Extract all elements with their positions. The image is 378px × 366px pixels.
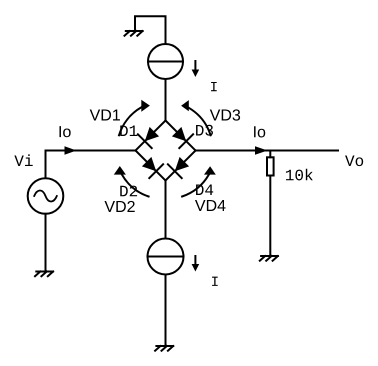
arrow I (top) <box>194 61 196 70</box>
diode D1 (top node to left node) <box>136 121 166 151</box>
resistor R1 10k <box>269 151 271 158</box>
label Vo <box>345 155 363 166</box>
label D2 <box>120 186 137 197</box>
label I (top) <box>211 82 217 91</box>
arrow I (bottom) <box>194 256 196 265</box>
wire I2 to ground <box>165 275 167 347</box>
diode D4 (right node to bottom node) <box>166 151 196 181</box>
ground (right, below R1) <box>260 256 278 261</box>
label VD2 <box>104 201 134 212</box>
wire V1 to ground <box>45 214 47 272</box>
arrowhead Io (left wire) <box>65 146 77 154</box>
label VD4 <box>195 200 226 211</box>
arc arrow VD3 <box>189 108 211 136</box>
ground (left, below V1) <box>35 272 53 277</box>
diode D2 (left node to bottom node) <box>136 151 166 181</box>
label 10k <box>286 169 313 181</box>
ground (top) <box>125 31 143 36</box>
arc arrow VD1 <box>119 107 141 135</box>
label D1 <box>120 125 137 136</box>
wire right output (bridge right node to Vo) <box>196 150 339 152</box>
arc arrow VD2 <box>122 174 149 196</box>
wire bridge bottom node to current source I2 <box>165 181 167 239</box>
label D3 <box>196 125 213 136</box>
ground (bottom) <box>155 346 173 351</box>
diode D3 (top node to right node) <box>166 121 196 151</box>
label Vi <box>14 154 32 166</box>
current source I1 (top) <box>148 44 183 79</box>
label VD3 <box>210 109 240 120</box>
AC source V1 (Vi) <box>28 178 64 214</box>
label Io (left) <box>59 126 70 137</box>
arc arrow VD4 <box>182 175 209 197</box>
wire I1 to bridge top node <box>165 79 167 121</box>
wire top-ground to current source I1 <box>135 16 166 44</box>
label D4 <box>196 184 213 195</box>
label I (bottom) <box>212 277 218 286</box>
label Io (right) <box>254 126 265 137</box>
wire left input (Vi node to bridge left node) <box>46 151 136 179</box>
arrowhead Io (right wire) <box>255 146 268 154</box>
label VD1 <box>90 109 120 120</box>
current source I2 (bottom) <box>148 239 184 275</box>
